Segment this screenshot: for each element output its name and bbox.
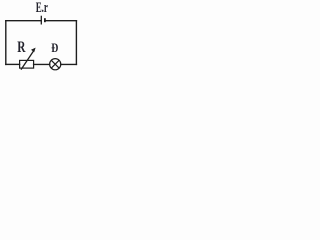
wire bottom-left xyxy=(6,63,20,65)
wire top-right xyxy=(45,20,76,22)
rheostat R xyxy=(20,60,34,68)
wire right xyxy=(75,21,77,65)
wire left xyxy=(5,21,7,65)
svg-text:Đ: Đ xyxy=(51,41,58,55)
wire lamp-to-right xyxy=(61,63,77,65)
battery E.r xyxy=(41,16,45,25)
lamp D xyxy=(50,59,61,70)
rheostat arrow xyxy=(21,48,36,70)
svg-text:R: R xyxy=(17,39,26,56)
svg-text:E.r: E.r xyxy=(36,0,49,16)
wire rheostat-to-lamp xyxy=(34,63,50,65)
wire top-left xyxy=(6,20,41,22)
